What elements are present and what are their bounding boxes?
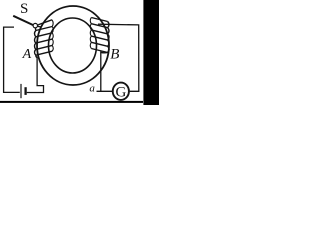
switch S	[13, 16, 41, 28]
svg-text:a: a	[89, 83, 95, 95]
svg-text:S: S	[20, 1, 28, 17]
iron ring core	[37, 6, 109, 85]
coil A	[35, 20, 54, 58]
coil B	[90, 18, 109, 53]
wire secondary top and right	[98, 24, 139, 91]
wire battery to coil A	[27, 57, 44, 93]
svg-text:G: G	[115, 85, 126, 101]
battery	[21, 84, 26, 98]
svg-text:B: B	[110, 47, 119, 63]
svg-text:A: A	[22, 47, 32, 62]
galvanometer G	[113, 83, 129, 101]
wire left loop	[4, 27, 20, 92]
wire coil B down to node a	[97, 52, 113, 92]
